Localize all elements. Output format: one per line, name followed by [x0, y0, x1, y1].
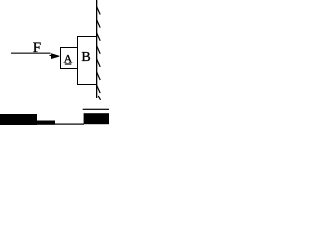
block A	[60, 47, 78, 69]
wall hatching	[97, 7, 101, 100]
arrow step segment	[50, 55, 55, 56]
svg-text:A: A	[64, 51, 73, 65]
right ledge line	[83, 109, 109, 110]
ground block right	[84, 113, 109, 124]
wall	[96, 0, 97, 98]
arrowhead	[51, 53, 59, 59]
force F arrow shaft	[11, 53, 51, 54]
ground step	[37, 121, 55, 125]
underline under A	[65, 63, 72, 64]
svg-text:B: B	[81, 50, 90, 65]
ground baseline	[55, 124, 84, 125]
block B	[77, 36, 97, 85]
ground block left	[0, 114, 37, 125]
